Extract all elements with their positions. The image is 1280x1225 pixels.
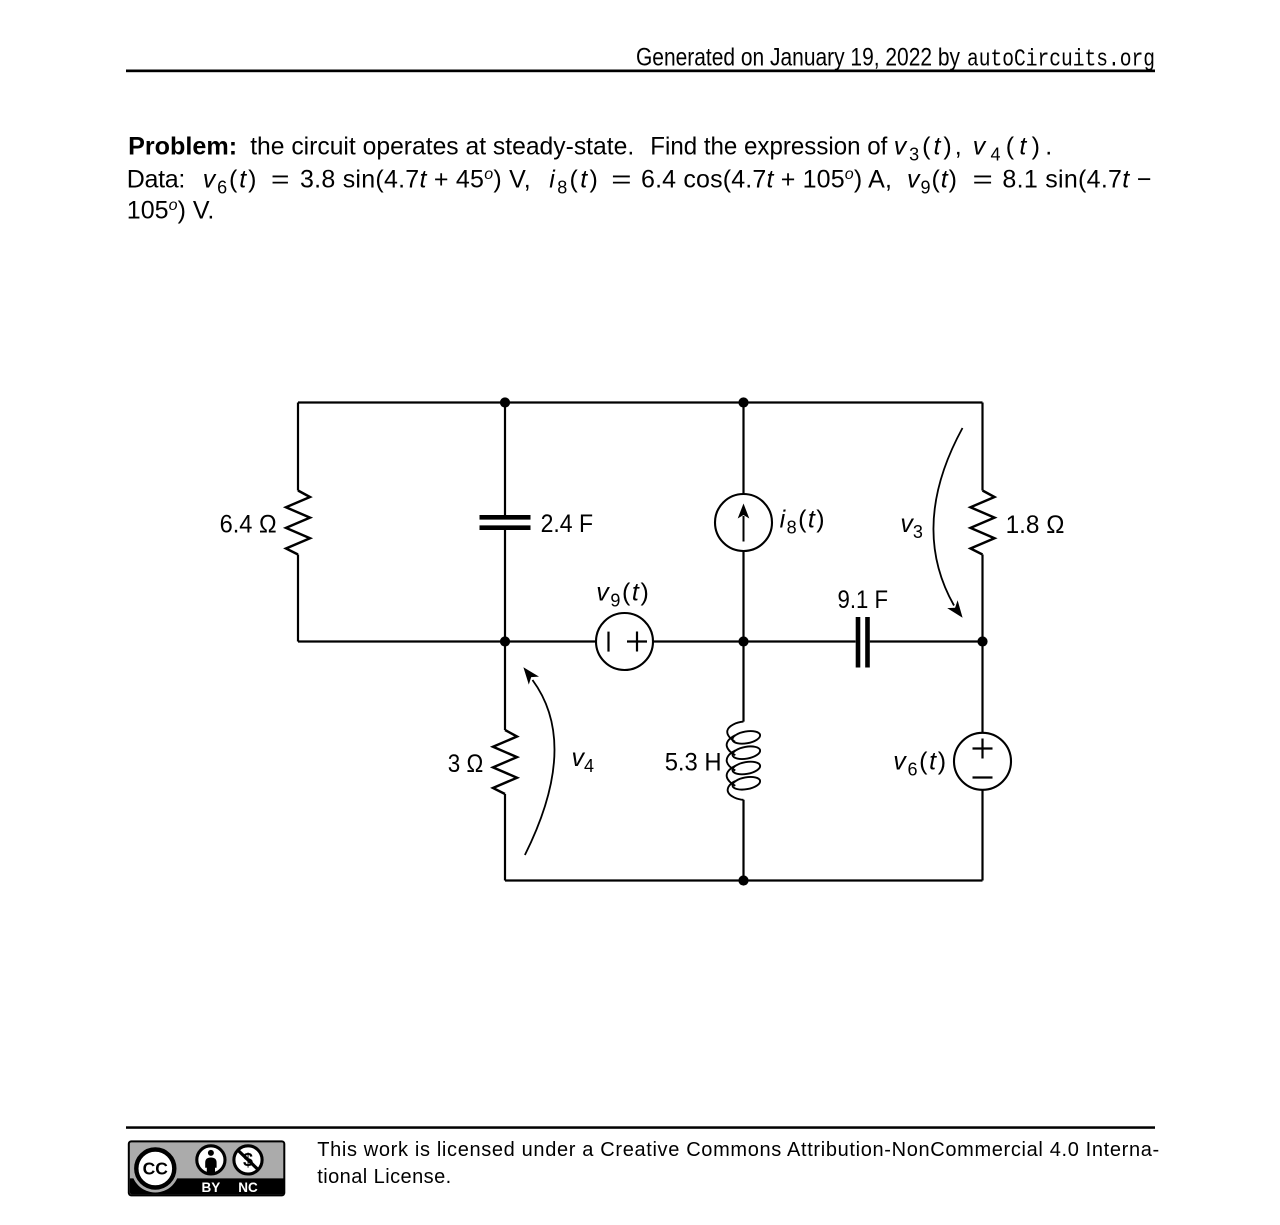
wire mid rail seg1 — [298, 640, 596, 642]
wire x3 rail lower1 — [742, 642, 744, 722]
svg-text:v9(t): v9(t) — [907, 165, 957, 197]
svg-text:5.3 H: 5.3 H — [665, 748, 722, 776]
wire right rail lower1 — [981, 642, 983, 733]
resistor 1.8ohm — [971, 491, 995, 555]
CC circle — [131, 1145, 179, 1193]
NC dollar icon — [234, 1146, 262, 1174]
inductor 5.3H coil — [727, 722, 761, 800]
current source i8 circle — [715, 494, 772, 551]
svg-text:autoCircuits.org: autoCircuits.org — [967, 46, 1155, 73]
svg-text:Generated on January 19, 2022: Generated on January 19, 2022 by — [636, 43, 960, 71]
wire right rail upper — [981, 403, 983, 491]
svg-text:tional License.: tional License. — [317, 1166, 451, 1188]
voltage source v6 circle — [954, 733, 1011, 790]
wire x3 rail upper — [742, 403, 744, 495]
wire mid rail seg2 — [653, 640, 856, 642]
svg-text:This work is licensed under a: This work is licensed under a Creative C… — [317, 1139, 1159, 1161]
svg-text:=: = — [973, 165, 993, 193]
svg-text:6.4 Ω: 6.4 Ω — [220, 511, 277, 539]
v9 minus bar — [607, 632, 609, 652]
i8 arrowhead — [738, 504, 750, 519]
svg-text:6.4 cos(4.7t + 105o) A,: 6.4 cos(4.7t + 105o) A, — [641, 165, 892, 193]
wire x3 rail mid — [742, 551, 744, 642]
i8 arrow shaft — [743, 516, 745, 542]
svg-text:1.8 Ω: 1.8 Ω — [1006, 511, 1065, 539]
wire x2 rail lower2 — [504, 794, 506, 881]
v6 plus sign — [973, 739, 993, 759]
svg-text:Data:: Data: — [127, 165, 186, 193]
CIRCUIT — [286, 403, 1011, 881]
arc v4 — [525, 680, 555, 855]
node dot mid right — [977, 636, 987, 646]
footer rule — [126, 1126, 1155, 1129]
svg-text:BY: BY — [202, 1180, 221, 1195]
resistor 6.4ohm — [286, 491, 310, 555]
capacitor 9.1F plates — [858, 617, 868, 668]
wire x2 rail lower1 — [504, 642, 506, 731]
voltage source v9 circle — [596, 613, 653, 670]
svg-text:2.4 F: 2.4 F — [541, 510, 594, 538]
v6 minus sign — [973, 776, 993, 778]
node dot top x3 — [738, 397, 748, 407]
v9 plus sign — [627, 632, 647, 652]
v3 arrowhead — [947, 600, 962, 618]
wire x3 rail lower2 — [742, 800, 744, 881]
node dot mid x2 — [500, 636, 510, 646]
wire right rail mid — [981, 555, 983, 642]
svg-text:v9(t): v9(t) — [596, 578, 649, 610]
CC badge — [129, 1141, 284, 1195]
node dot bottom x3 — [738, 875, 748, 885]
capacitor 2.4F plates — [480, 517, 531, 527]
svg-text:NC: NC — [238, 1180, 258, 1195]
svg-text:9.1 F: 9.1 F — [838, 586, 889, 614]
svg-text:3 Ω: 3 Ω — [448, 750, 484, 778]
svg-text:=: = — [271, 165, 290, 193]
wire top rail — [298, 401, 983, 403]
wire bottom rail — [505, 879, 983, 881]
svg-text:v6(t): v6(t) — [893, 747, 946, 779]
svg-text:v6(t): v6(t) — [203, 165, 257, 197]
wire x2 rail mid — [504, 530, 506, 642]
v4 arrowhead — [523, 667, 539, 684]
arc v3 — [933, 428, 962, 606]
svg-text:=: = — [611, 165, 631, 193]
wire mid rail seg3 — [870, 640, 983, 642]
svg-text:v3(t),: v3(t), — [894, 132, 962, 164]
wire left rail upper — [297, 403, 299, 491]
node dot mid x3 — [738, 636, 748, 646]
svg-text:8.1 sin(4.7t −: 8.1 sin(4.7t − — [1002, 165, 1151, 193]
node dot top x2 — [500, 397, 510, 407]
resistor 3ohm — [493, 730, 517, 794]
wire left rail lower — [297, 555, 299, 642]
wire x2 rail upper — [504, 403, 506, 516]
BY person icon — [197, 1146, 225, 1174]
svg-text:3.8 sin(4.7t + 45o) V,: 3.8 sin(4.7t + 45o) V, — [300, 165, 531, 193]
svg-text:CC: CC — [143, 1159, 169, 1179]
header rule — [126, 70, 1155, 73]
wire right rail lower2 — [981, 790, 983, 881]
